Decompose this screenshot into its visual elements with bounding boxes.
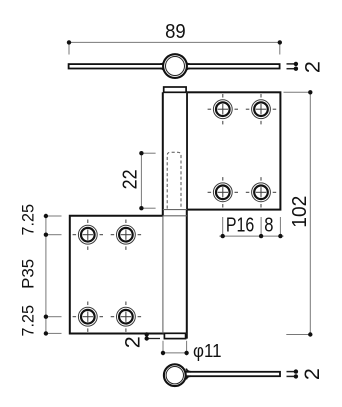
lower leaf plate <box>70 216 165 334</box>
hole H1 upper plate <box>208 94 238 124</box>
svg-text:2: 2 <box>300 368 324 380</box>
svg-text:102: 102 <box>289 196 311 228</box>
svg-text:2: 2 <box>121 336 145 348</box>
hidden pin hole (dashed) <box>167 152 181 208</box>
bottom view knuckle outer circle <box>164 364 186 386</box>
svg-text:P35: P35 <box>19 259 38 289</box>
top view knuckle fillets <box>160 61 190 72</box>
hole H3 upper plate <box>208 177 238 207</box>
svg-text:89: 89 <box>165 21 186 43</box>
barrel left edge lower (thin) <box>162 216 164 333</box>
bottom view knuckle fillets <box>186 369 191 380</box>
dimension 89 (top width) <box>67 21 282 54</box>
svg-text:7.25: 7.25 <box>19 204 38 236</box>
hole H8 lower plate <box>111 302 141 332</box>
hole H2 upper plate <box>246 94 276 124</box>
dimension 22 (slot depth) <box>120 151 156 210</box>
pin bottom cap <box>164 333 185 338</box>
svg-text:2: 2 <box>301 61 325 73</box>
svg-text:7.25: 7.25 <box>19 305 38 337</box>
dimension 102 (overall height) <box>284 90 313 337</box>
dimension 2 (bottom bar thickness) <box>287 368 325 380</box>
dimension phi 11 (barrel diameter) <box>161 341 222 361</box>
dimension 7.25 / P35 / 7.25 (left hole spacing) <box>19 204 62 336</box>
hole H7 lower plate <box>73 302 103 332</box>
top view knuckle outer circle <box>163 54 187 78</box>
lower plate top edge across barrel <box>163 215 187 217</box>
dimension 2 (pin protrusion bottom) <box>121 332 161 348</box>
svg-text:P16: P16 <box>226 215 254 237</box>
svg-text:22: 22 <box>120 169 142 189</box>
barrel left edge upper (bold) <box>162 92 164 216</box>
top view knuckle inner circle <box>166 57 185 76</box>
bottom view knuckle inner circle <box>166 367 183 384</box>
hole H5 lower plate <box>73 220 103 250</box>
barrel top cap (pin head) <box>164 87 186 92</box>
dimension P16 and 8 (hole pitch) <box>219 215 283 239</box>
barrel bottom mouth line <box>163 332 187 334</box>
upper leaf plate <box>187 92 280 209</box>
dimension 2 (top bar thickness) <box>287 61 325 73</box>
svg-text:φ11: φ11 <box>193 341 222 361</box>
barrel right edge lower (bold) <box>186 210 188 339</box>
upper plate bottom edge across barrel <box>163 209 187 211</box>
barrel right edge upper (thin) <box>186 92 188 209</box>
top view leaf bar <box>69 64 280 68</box>
hole H4 upper plate <box>246 177 276 207</box>
hole H6 lower plate <box>111 220 141 250</box>
svg-text:8: 8 <box>264 215 273 237</box>
bottom view leaf bar <box>176 372 280 376</box>
